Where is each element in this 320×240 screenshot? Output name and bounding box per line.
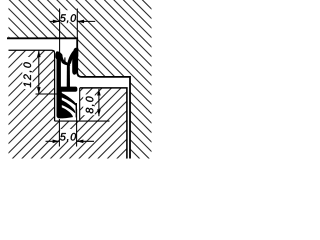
12,0 arrows [37,50,41,57]
12,0 dim line [38,51,40,94]
frame block outline: bottom edge, step wall, bottom face, right strip edge [7,37,130,158]
text halo: bottom 5,0 [60,129,76,141]
8,0 arrows [97,89,101,96]
sash block hatching (135 deg) [0,20,265,189]
arrowheads [37,20,101,144]
seal left bulge with V-arm and hook [55,51,70,88]
text halo: 8,0 [83,94,95,115]
top 5,0 dim tails [50,20,60,22]
seal right bar [76,103,77,117]
sash centre block: left edge [79,88,81,121]
text 8,0 [86,96,95,113]
sash left block outline: top face + rounded corner + right wall [9,50,55,121]
seal arch [67,50,76,64]
top 5,0 arrows [53,20,60,24]
bottom 5,0 extension lines [58,119,60,147]
seal middle bar [67,63,70,88]
groove floor line [55,120,110,122]
text 5,0 top [60,14,76,23]
8,0 dim line [98,89,100,116]
text halo: 12,0 [22,57,32,89]
seal lower mass with three arms [57,88,77,118]
text 5,0 bottom [60,133,76,142]
text halo: top 5,0 [60,10,76,22]
seal foot band [58,87,77,92]
sash centre block: top edge + right edge [80,88,127,159]
reference line at groove top (12,0 lower ref) [36,93,58,95]
bottom 5,0 dim tails [46,140,60,142]
frame block hatching (45 deg) [0,0,320,189]
top 5,0 extension lines [59,9,61,54]
seal lobe pressed against wall [73,48,78,58]
text 12,0 [23,62,32,87]
seal stem along wall [72,53,77,75]
bottom 5,0 arrows [53,140,60,144]
